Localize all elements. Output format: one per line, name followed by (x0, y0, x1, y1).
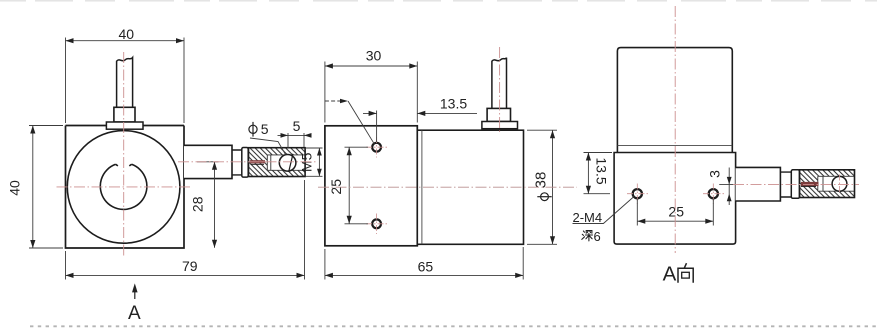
hole centerlines right view (627, 184, 724, 205)
plate holes right view (633, 189, 718, 198)
threaded block right view (800, 170, 855, 198)
svg-text:2-M4: 2-M4 (573, 210, 603, 225)
centerline cylinder axis middle view (318, 186, 577, 188)
dimension 25 middle (345, 147, 369, 224)
centerline stud axis right view (733, 183, 859, 185)
dimension 13.5 right view (584, 153, 613, 194)
flange middle view (482, 122, 518, 129)
svg-text:A: A (663, 262, 677, 285)
svg-text:13.5: 13.5 (440, 96, 467, 112)
svg-text:3: 3 (707, 170, 723, 178)
dimension 13.5 middle (363, 111, 477, 143)
dark slot right view (801, 182, 819, 186)
svg-text:A: A (128, 303, 141, 324)
centerline vertical axis right view (674, 6, 676, 253)
washer left view (242, 148, 248, 178)
dimension 40 top (66, 38, 185, 124)
dimension M5 (306, 148, 323, 176)
threaded block (section) left view (249, 148, 306, 177)
bottom dotted border line (30, 325, 877, 327)
hanzi shen (depth) drawn (582, 231, 593, 241)
svg-text:30: 30 (366, 48, 382, 64)
plate holes middle view (372, 143, 381, 228)
collar middle view (487, 108, 510, 121)
hanzi xiang (direction) drawn (678, 263, 693, 283)
hole centerlines middle view (366, 137, 388, 234)
svg-text:25: 25 (328, 179, 344, 195)
dimension phi38 (527, 130, 557, 244)
dimension 3 right view (719, 168, 734, 206)
centerline horizontal axis left view (57, 186, 193, 188)
label phi5 with leader (249, 122, 257, 137)
plate right view (614, 153, 736, 245)
svg-text:40: 40 (119, 26, 135, 42)
neck right view (780, 172, 791, 197)
washer right view (791, 170, 799, 199)
centerline stud axis left view (178, 161, 318, 163)
shaft (broken end) left view (117, 58, 133, 108)
dark slot left view (250, 160, 265, 163)
block outline left view (249, 148, 306, 177)
svg-text:40: 40 (7, 180, 23, 196)
big circle (cylinder outline) (67, 131, 180, 244)
ball right view (832, 176, 847, 191)
ball in chamber left view (279, 155, 296, 172)
svg-text:5: 5 (261, 121, 269, 137)
shaft flange boss left view (106, 122, 143, 129)
inner threaded hole circle with gap at top (100, 164, 147, 209)
svg-text:38: 38 (533, 172, 550, 189)
cylinder rim line right view (617, 144, 732, 146)
mounting plate middle view (325, 126, 417, 246)
chamber white band right view (818, 176, 855, 191)
dimension 5 (278, 133, 312, 148)
dimension 65 bottom (325, 247, 523, 280)
svg-text:25: 25 (668, 204, 684, 220)
square body plate 40x40 (66, 126, 185, 249)
view arrow A (134, 288, 136, 299)
svg-text:28: 28 (190, 196, 206, 212)
ball centerlines right view (839, 175, 841, 194)
dimension 28 (197, 162, 219, 248)
dimension 25 right view (637, 199, 713, 226)
boss cylinder right side left view (184, 145, 232, 178)
svg-text:5: 5 (293, 118, 301, 134)
centerline vertical axis left view (123, 52, 125, 256)
svg-text:65: 65 (418, 259, 434, 275)
dimension 79 bottom (66, 180, 305, 280)
cylinder right view (617, 48, 732, 153)
block outline right view (800, 170, 855, 198)
dashed leader to upper hole (325, 100, 341, 102)
svg-text:79: 79 (182, 258, 198, 274)
neck left view (232, 150, 242, 175)
cylinder body middle view (417, 130, 523, 244)
centerline shaft axis middle view (499, 47, 501, 134)
steep section line in ball (289, 154, 293, 172)
dimension 40 left (29, 126, 63, 249)
shaft middle view (492, 58, 507, 109)
dimension 30 (325, 62, 417, 123)
chamber white band left view (267, 155, 305, 170)
cylinder rim line middle view (421, 130, 423, 244)
boss right view (736, 167, 781, 201)
svg-text:6: 6 (594, 229, 601, 244)
shaft collar left view (114, 107, 135, 122)
svg-text:13.5: 13.5 (594, 157, 610, 184)
